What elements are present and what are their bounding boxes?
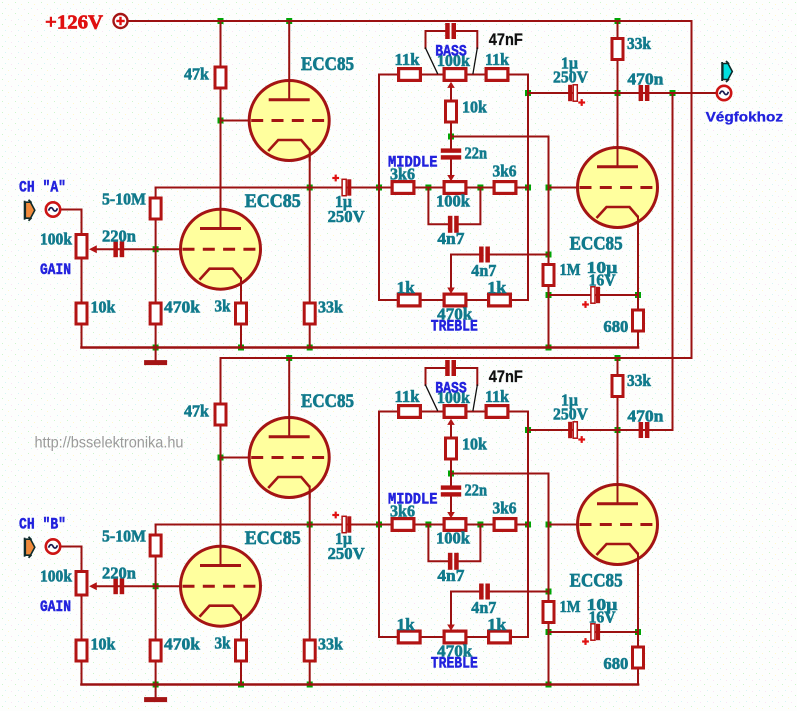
wire 33k anode R to V3 anode (ch A) [617,60,619,148]
svg-text:220n: 220n [102,564,136,583]
wire 5-10M top stub (ch B) [155,525,157,535]
wire 5-10M top stub (ch A) [155,188,157,198]
wire 5-10M to V2 grid node (ch A) [155,220,157,249]
capacitor 220n (ch B) [113,578,118,594]
wire bass row pot-11k (ch B) [468,411,485,413]
junction ground rail / 3k (ch B) [238,682,244,688]
wire right rail segment above output (ch A) [527,75,529,94]
resistor 1M grid leak V3 (ch A) [543,265,554,286]
junction middle row / right rail (ch A) [525,185,531,191]
svg-text:TREBLE: TREBLE [431,318,478,336]
wire V1 grid (ch A) [221,120,252,122]
junction +126V rail / 47k (ch A) [218,18,224,24]
junction ground rail / 1M (ch B) [546,682,552,688]
junction 10k/22n node (ch B) [448,471,454,477]
AC source output [717,86,731,100]
capacitor 220n (ch A) [113,241,118,257]
resistor 3k6 middle left (ch A) [392,182,414,194]
resistor 33k anode load V3 (ch A) [612,39,623,60]
junction tone-stack left rail (ch B) [376,522,382,528]
svg-text:470k: 470k [164,298,201,317]
potentiometer MIDDLE 100k (ch B) [444,519,466,531]
wire 33k anode R to V3 anode (ch B) [617,397,619,485]
junction V3 anode / 33k / 470n (ch B) [615,427,621,433]
svg-text:11k: 11k [485,387,510,406]
wire right rail segment above output (ch B) [527,412,529,431]
svg-text:47k: 47k [184,65,210,84]
resistor 3k cathode (ch A) [236,303,247,324]
wire 47nF left slant (black) (ch B) [426,385,438,411]
wire V3 cathode drop (ch B) [637,558,639,632]
junction 4n7 tap on grid column (ch B) [546,589,552,595]
wire V2 grid node to 470k (ch A) [155,249,157,303]
wire 47nF right slant (black) (ch A) [473,48,477,74]
svg-text:BASS: BASS [435,43,467,61]
wire V1 cathode drop (ch A) [309,153,311,188]
wire rail to 47k (ch B) [220,358,222,403]
capacitor 4n7 middle bridge (ch A) [448,216,453,233]
svg-text:10k: 10k [462,435,488,454]
svg-text:ECC85: ECC85 [570,234,623,255]
capacitor 22n (ch B) [441,485,461,489]
resistor 11k bass right (ch A) [486,69,508,81]
power terminal +126V [114,14,128,28]
junction ground rail / 470k (ch B) [153,682,159,688]
wire GAIN pot to 10k (ch B) [81,596,83,640]
wire treble row pot-1k (ch A) [468,299,488,301]
wire feedback node to grid column (ch A) [451,137,549,265]
junction V2 anode - V1 grid node (ch A) [218,118,224,124]
junction tone-stack left rail (ch A) [376,185,382,191]
wire middle row segments (ch A) [415,187,443,189]
junction ground rail / 3k (ch A) [238,345,244,351]
junction ground rail / 33k cathode R (ch B) [307,682,313,688]
svg-text:10k: 10k [462,98,488,117]
wire 47nF right slant (black) (ch B) [473,385,477,411]
resistor 1k treble right (ch A) [489,294,511,306]
resistor 1k treble left (ch A) [398,294,420,306]
wire V2 grid (ch A) [96,248,183,250]
wire bass row 11k-pot (ch A) [422,74,443,76]
capacitor 4n7 treble (ch A) [479,247,484,263]
resistor 33k anode load V3 (ch B) [612,376,623,397]
AC source input (ch B) [46,539,60,553]
wire 680 to ground rail (ch B) [637,670,639,685]
junction V1 cathode / 33k (ch B) [307,522,313,528]
svg-text:ECC85: ECC85 [301,391,354,412]
svg-text:Végfokhoz: Végfokhoz [706,108,783,124]
junction V3 cathode / 10u / 680 (ch B) [635,629,641,635]
wire bass row 11k-pot (ch B) [422,411,443,413]
wire V1 grid (ch B) [221,457,252,459]
svg-text:33k: 33k [627,371,652,390]
svg-text:680: 680 [603,654,628,673]
svg-text:ECC85: ECC85 [570,571,623,592]
wire feedback node to grid column (ch B) [451,474,549,602]
wire main node row (ch A) [156,187,391,189]
wire 47nF left lead (ch B) [426,368,447,385]
resistor 470k grid leak (ch A) [150,303,161,324]
svg-text:ECC85: ECC85 [301,54,354,75]
svg-text:250V: 250V [553,405,588,424]
resistor 33k cathode follower load (ch A) [304,303,315,324]
wire V2 grid node to 470k (ch B) [155,586,157,640]
capacitor 470n output (ch A) [639,85,644,101]
resistor 33k cathode follower load (ch B) [304,640,315,661]
svg-text:ECC85: ECC85 [245,191,301,212]
svg-text:TREBLE: TREBLE [431,655,478,673]
junction rail / V1 anode (ch B) [286,355,292,361]
svg-text:10k: 10k [91,298,117,317]
svg-text:MIDDLE: MIDDLE [388,153,438,171]
wire 33k cathode R to ground rail (ch A) [309,325,311,348]
wire 680 to cathode node (ch A) [637,295,639,310]
wire rail to V1 anode (ch B) [288,358,290,419]
junction V3 grid (ch B) [546,522,552,528]
junction middle row right (ch B) [477,522,483,528]
wire V3 grid (ch A) [549,187,580,189]
wire 3k to ground rail (ch A) [240,325,242,348]
tube V1 ECC85 cathode follower (ch A) [249,79,330,162]
input port CH A [25,200,35,221]
capacitor 47nF bass bypass (ch A) [445,23,450,39]
wire 47k to V2 anode (ch B) [220,426,222,548]
wire middle row segments (ch B) [415,524,443,526]
potentiometer TREBLE 470k (ch A) [444,294,466,306]
resistor 47k anode load (ch A) [215,67,226,88]
svg-text:+126V: +126V [45,12,104,34]
wire treble row pot-1k (ch B) [468,636,488,638]
wire 33k cathode R to ground rail (ch B) [309,662,311,685]
junction middle row left (ch B) [425,522,431,528]
svg-text:1M: 1M [560,597,581,616]
svg-text:33k: 33k [318,635,344,654]
resistor 5-10M (ch B) [150,535,161,556]
resistor 1M grid leak V3 (ch B) [543,602,554,623]
wire treble row 1k-pot (ch B) [422,636,443,638]
svg-text:3k6: 3k6 [493,499,517,518]
wire output row (ch A) [528,92,717,94]
wire 10u cap row (ch B) [549,631,639,633]
wire 33k cathode R top (ch B) [309,525,311,641]
junction middle row / right rail (ch B) [525,522,531,528]
wire V2 grid (ch B) [96,585,183,587]
potentiometer TREBLE 470k (ch B) [444,631,466,643]
wire treble row 1k-pot (ch A) [422,299,443,301]
ground symbol (ch B) [144,685,167,703]
potentiometer P1 100k GAIN (ch A) [76,235,97,259]
svg-text:11k: 11k [395,387,421,406]
capacitor 47nF bass bypass (ch B) [445,360,450,376]
capacitor 1u 250V feedback (ch A) [573,85,577,101]
svg-text:4n7: 4n7 [437,229,464,248]
wire BASS wiper to 10k (ch A) [450,88,452,101]
svg-text:22n: 22n [465,481,488,500]
junction V2 grid node (ch B) [153,583,159,589]
input port CH B [25,537,35,558]
resistor 10k input (ch A) [76,303,87,324]
junction output row / right rail (ch A) [525,90,531,96]
svg-text:1k: 1k [397,278,416,297]
capacitor 1u 250V coupling (ch A) [342,179,346,195]
svg-text:680: 680 [603,317,628,336]
wire 680 to cathode node (ch B) [637,632,639,647]
wire 22n to MIDDLE wiper (ch A) [450,160,452,176]
resistor 10k wiper (ch B) [446,438,457,459]
wire V3 cathode drop (ch A) [637,221,639,295]
wire V1 cathode drop (ch B) [309,490,311,525]
svg-text:470n: 470n [627,407,663,426]
wire 470k to ground rail (ch A) [155,325,157,348]
wire 10k to ground rail (ch A) [81,325,83,348]
junction 1M bottom / 10u (ch B) [546,629,552,635]
wire V2 cathode to 3k (ch B) [240,620,242,640]
wire 5-10M to V2 grid node (ch B) [155,557,157,586]
junction V1 cathode / 33k (ch A) [307,185,313,191]
junction middle row left (ch A) [425,185,431,191]
junction V3 cathode / 10u / 680 (ch A) [635,292,641,298]
resistor 3k6 middle left (ch B) [392,519,414,531]
wire 10k to ground rail (ch B) [81,662,83,685]
svg-text:100k: 100k [436,192,471,211]
junction V2 grid node (ch A) [153,246,159,252]
resistor 10k input (ch B) [76,640,87,661]
wire 470k to ground rail (ch B) [155,662,157,685]
capacitor 4n7 treble (ch B) [479,584,484,600]
tube V1 ECC85 cathode follower (ch B) [249,416,330,499]
capacitor 10u 16V cathode bypass (ch B) [591,624,595,640]
wire bass row to right rail (ch A) [510,75,529,301]
resistor 47k anode load (ch B) [215,404,226,425]
capacitor 10u 16V cathode bypass (ch A) [591,287,595,303]
junction ground rail / 33k cathode R (ch A) [307,345,313,351]
output port Vegfokhoz [722,61,732,82]
wire ground rail (ch B) [82,683,639,686]
resistor 11k bass left (ch B) [399,406,421,418]
wire bass row to right rail (ch B) [510,412,529,638]
svg-text:CH "A": CH "A" [19,178,66,196]
wire 47nF right lead (ch A) [456,31,478,48]
potentiometer BASS 100k (ch A) [444,69,466,81]
svg-text:100k: 100k [40,230,73,249]
wire main node row (ch B) [156,524,391,526]
junction 1M bottom / 10u (ch A) [546,292,552,298]
junction rail / 33k (ch A) [615,18,621,24]
wire GAIN pot to 10k (ch A) [81,259,83,303]
svg-text:1M: 1M [560,260,581,279]
svg-text:1k: 1k [487,278,507,297]
resistor 1k treble left (ch B) [398,631,420,643]
wire +126V right-side drop to channel B rail [221,21,692,358]
svg-text:CH "B": CH "B" [19,515,66,533]
resistor 11k bass right (ch B) [486,406,508,418]
junction middle row right (ch A) [477,185,483,191]
wire 3k to ground rail (ch B) [240,662,242,685]
svg-text:1k: 1k [397,615,416,634]
wire V3 grid (ch B) [549,524,580,526]
potentiometer MIDDLE 100k (ch A) [444,182,466,194]
wire 4n7 treble feed (ch B) [490,591,549,593]
wire +126V rail (ch B) [221,357,692,359]
svg-text:470k: 470k [164,635,201,654]
resistor 3k6 middle right (ch B) [494,519,516,531]
resistor 11k bass left (ch A) [399,69,421,81]
svg-text:100k: 100k [436,529,471,548]
junction V3 anode / 33k / 470n (ch A) [615,90,621,96]
tube V2 ECC85 first stage (ch B) [181,545,262,628]
svg-text:33k: 33k [627,34,652,53]
wire middle row right segment (ch B) [468,524,529,526]
AC source input (ch A) [46,202,60,216]
junction ground rail / 1M (ch A) [546,345,552,351]
wire 4n7 bridge around MIDDLE pot (ch B) [428,525,449,562]
wire V2 cathode to 3k (ch A) [240,283,242,303]
resistor 3k cathode (ch B) [236,640,247,661]
wire 47nF left slant (black) (ch A) [426,48,438,74]
wire 22n to MIDDLE wiper (ch B) [450,497,452,513]
wire 680 to ground rail (ch A) [637,333,639,348]
wire 1M bottom (ch A) [548,287,550,348]
svg-text:10k: 10k [91,635,117,654]
svg-text:470n: 470n [627,70,663,89]
svg-text:47nF: 47nF [489,31,523,49]
wire bass row pot-11k (ch A) [468,74,485,76]
wire rail to 33k anode R (ch B) [617,358,619,375]
svg-text:BASS: BASS [435,380,467,398]
tube V2 ECC85 first stage (ch A) [181,208,262,291]
wire tone stack left rail (ch B) [379,412,397,638]
wire 47nF right lead (ch B) [456,368,478,385]
wire 1M bottom (ch B) [548,624,550,685]
svg-text:http://bsselektronika.hu: http://bsselektronika.hu [35,435,184,452]
wire BASS wiper to 10k (ch B) [450,425,452,438]
wire 10k to 22n node (ch B) [450,460,452,485]
svg-text:3k: 3k [215,297,232,316]
potentiometer BASS 100k (ch B) [444,406,466,418]
resistor 680 cathode V3 (ch A) [633,310,644,331]
junction ground rail / 470k (ch A) [153,345,159,351]
capacitor 1u 250V coupling (ch B) [342,516,346,532]
svg-text:11k: 11k [395,50,421,69]
svg-text:1k: 1k [487,615,507,634]
resistor 3k6 middle right (ch A) [494,182,516,194]
wire rail to 33k anode R (ch A) [617,21,619,38]
junction V3 grid (ch A) [546,185,552,191]
capacitor 1u 250V feedback (ch B) [573,422,577,438]
svg-text:250V: 250V [328,207,365,226]
junction output row / right rail (ch B) [525,427,531,433]
resistor 5-10M (ch A) [150,198,161,219]
svg-text:MIDDLE: MIDDLE [388,490,438,508]
svg-text:16V: 16V [589,271,616,290]
svg-text:100k: 100k [40,567,73,586]
wire ground rail (ch A) [82,346,639,349]
wire 47k to V2 anode (ch A) [220,89,222,211]
potentiometer P1 100k GAIN (ch B) [76,572,97,596]
svg-text:47k: 47k [184,402,210,421]
wire rail to V1 anode (ch A) [288,21,290,82]
wire 47nF left lead (ch A) [426,31,447,48]
wire input to GAIN pot (ch B) [61,547,82,571]
junction V2 anode - V1 grid node (ch B) [218,455,224,461]
svg-text:4n7: 4n7 [437,566,464,585]
svg-text:ECC85: ECC85 [245,528,301,549]
junction 4n7 tap on grid column (ch A) [546,252,552,258]
svg-text:33k: 33k [318,298,344,317]
svg-text:5-10M: 5-10M [102,190,146,209]
resistor 1k treble right (ch B) [489,631,511,643]
svg-text:22n: 22n [465,144,488,163]
wire output row (ch B) [528,429,673,431]
svg-text:3k: 3k [215,634,232,653]
tube V3 ECC85 output stage (ch B) [578,483,659,566]
wire 4n7 treble feed (ch A) [490,254,549,256]
svg-text:5-10M: 5-10M [102,527,146,546]
junction rail / 33k (ch B) [615,355,621,361]
junction 10k/22n node (ch A) [448,134,454,140]
wire middle row right segment (ch A) [468,187,529,189]
svg-text:16V: 16V [589,608,616,627]
resistor 470k grid leak (ch B) [150,640,161,661]
wire tone stack left rail (ch A) [379,75,397,301]
svg-text:250V: 250V [553,68,588,87]
ground symbol (ch A) [144,348,167,366]
junction rail / V1 anode (ch A) [286,18,292,24]
wire 4n7 bridge around MIDDLE pot (ch A) [428,188,449,225]
svg-text:47nF: 47nF [489,368,523,386]
svg-text:GAIN: GAIN [40,261,71,279]
wire 10u cap row (ch A) [549,294,639,296]
svg-text:250V: 250V [328,544,365,563]
capacitor 22n (ch A) [441,148,461,152]
svg-text:3k6: 3k6 [493,162,517,181]
wire output tie drop to channel B [672,93,674,430]
wire +126V rail (ch A) [128,20,692,22]
svg-text:220n: 220n [102,227,136,246]
resistor 10k wiper (ch A) [446,101,457,122]
junction output tie (ch A) [670,90,676,96]
wire rail to 47k (ch A) [220,21,222,66]
tube V3 ECC85 output stage (ch A) [578,146,659,229]
resistor 680 cathode V3 (ch B) [633,647,644,668]
svg-text:GAIN: GAIN [40,598,71,616]
svg-text:11k: 11k [485,50,510,69]
wire 10k to 22n node (ch A) [450,123,452,148]
wire input to GAIN pot (ch A) [61,210,82,234]
capacitor 4n7 middle bridge (ch B) [448,553,453,570]
capacitor 470n output (ch B) [639,422,644,438]
wire 33k cathode R top (ch A) [309,188,311,304]
